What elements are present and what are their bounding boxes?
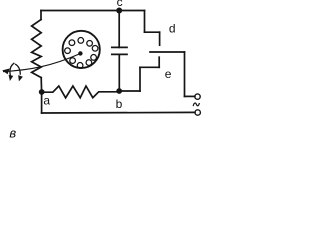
- electrode e tip stub: [158, 57, 160, 67]
- resistor R1 vertical zigzag: [32, 20, 42, 78]
- wire resistor to node a: [40, 78, 42, 92]
- capacitor C1 plates: [112, 46, 127, 48]
- node b junction dot: [116, 88, 122, 94]
- svg-text:c: c: [117, 0, 123, 9]
- electrode d vertical from top wire: [144, 11, 146, 33]
- dial outer circle: [63, 31, 100, 68]
- node a junction dot: [39, 89, 45, 95]
- node c junction dot: [116, 8, 122, 14]
- wire bar down to terminal: [184, 52, 186, 96]
- svg-text:e: e: [165, 67, 172, 81]
- terminal bottom circle: [195, 110, 200, 115]
- label tilde AC: [193, 103, 199, 106]
- terminal top circle: [195, 94, 200, 99]
- wire bottom horizontal: [42, 111, 195, 114]
- dial hole 4: [91, 55, 97, 61]
- electrode d horizontal arm: [145, 31, 160, 33]
- svg-text:d: d: [169, 22, 176, 36]
- dial hole 9: [69, 40, 75, 46]
- wire node b to right: [119, 90, 140, 92]
- dial center dot: [78, 51, 82, 55]
- wire node a down to bottom: [41, 92, 43, 113]
- dial hole 6: [77, 63, 83, 69]
- wire left vertical lead: [40, 11, 42, 20]
- middle bar electrode: [150, 51, 185, 53]
- rotation arc left arrowhead: [9, 75, 14, 81]
- dial hole 8: [65, 48, 71, 54]
- wire top horizontal c: [41, 10, 145, 12]
- rotation arc right stroke: [15, 64, 20, 75]
- dial hole 5: [86, 60, 92, 66]
- resistor R2 horizontal zigzag a-b: [44, 86, 117, 98]
- electrode d tip stub: [159, 32, 161, 45]
- dial arm wire diagonal: [3, 54, 80, 72]
- electrode e horizontal arm: [140, 66, 159, 68]
- wire to top terminal: [185, 95, 195, 97]
- svg-text:в: в: [9, 125, 16, 140]
- svg-text:a: a: [43, 94, 50, 108]
- svg-text:b: b: [116, 97, 123, 111]
- dial hole 7: [70, 58, 76, 64]
- dial hole 2: [87, 40, 93, 46]
- dial hole 3: [92, 45, 98, 51]
- rotation arc right arrowhead: [18, 75, 23, 81]
- dial hole 1: [78, 38, 84, 44]
- wire up to electrode e: [139, 67, 141, 91]
- rotation arc left stroke: [10, 63, 14, 77]
- capacitor C1 bottom lead to node b: [118, 54, 120, 91]
- capacitor C1 top lead from node c: [118, 11, 120, 48]
- dial arm arrowhead: [2, 69, 9, 75]
